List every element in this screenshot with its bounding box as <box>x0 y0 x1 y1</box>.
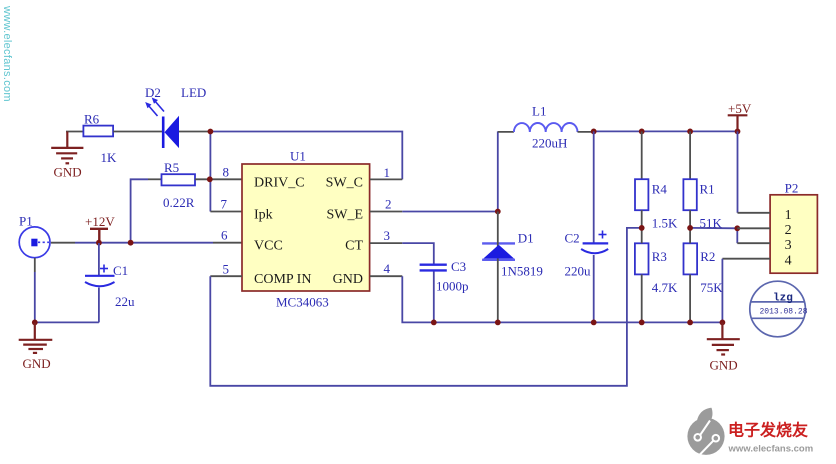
wire: R1/R2 mid to P2 <box>690 227 737 229</box>
svg-text:C3: C3 <box>451 259 466 274</box>
inductor L1 <box>498 123 594 132</box>
svg-text:1K: 1K <box>101 150 118 165</box>
node: SW_E junction <box>495 209 501 215</box>
stamp: lzg 2013.08.28 <box>750 281 808 337</box>
capacitor C1 <box>85 243 115 322</box>
watermark logo: elecfans bottom right <box>687 408 724 457</box>
svg-text:3: 3 <box>785 238 792 253</box>
diode D1 1N5819 <box>482 212 515 323</box>
svg-text:75K: 75K <box>700 280 723 295</box>
wire: +5V down to P2 pin1 <box>737 131 739 212</box>
svg-text:P1: P1 <box>19 214 33 229</box>
node: +12V junction <box>96 240 102 246</box>
pin 2 stub <box>370 211 402 213</box>
svg-text:GND: GND <box>333 272 363 287</box>
wire: C3 bottom to rail <box>433 272 435 323</box>
wire: node up to L1 <box>497 131 499 211</box>
node: P2 pin4 rail junction <box>720 320 726 326</box>
svg-text:COMP IN: COMP IN <box>254 272 311 287</box>
svg-text:SW_E: SW_E <box>326 208 363 223</box>
svg-text:MC34063: MC34063 <box>276 295 329 310</box>
svg-text:4: 4 <box>384 261 391 276</box>
svg-text:lzg: lzg <box>773 293 793 305</box>
svg-text:8: 8 <box>223 165 230 180</box>
wire: CT to C3 <box>402 243 434 264</box>
capacitor C3 <box>420 265 447 271</box>
svg-text:3: 3 <box>384 228 391 243</box>
svg-text:6: 6 <box>221 228 228 243</box>
P2 pin 2 stub <box>737 227 770 229</box>
svg-text:220u: 220u <box>565 264 592 279</box>
node: R5 loop junction <box>128 240 134 246</box>
node: R4/R3 junction <box>639 225 645 231</box>
pin 5 stub <box>210 275 242 277</box>
node: L1/C2 junction <box>591 129 597 135</box>
svg-text:R2: R2 <box>700 249 715 264</box>
svg-text:L1: L1 <box>532 104 546 119</box>
svg-text:22u: 22u <box>115 294 135 309</box>
connector P2 <box>770 195 817 273</box>
svg-text:220uH: 220uH <box>532 135 567 150</box>
svg-text:R6: R6 <box>84 112 100 127</box>
svg-text:+12V: +12V <box>85 214 115 229</box>
node: R1 top junction <box>687 129 693 135</box>
node: R4 top junction <box>639 129 645 135</box>
wire: LED to node <box>179 131 210 133</box>
pin 4 stub <box>370 275 402 277</box>
svg-text:DRIV_C: DRIV_C <box>254 175 305 190</box>
wire: top +5V rail <box>594 130 738 132</box>
wire: C1 bottom to P1 bottom <box>35 321 99 323</box>
ground (R6 left) <box>51 132 83 164</box>
wire: P1 bottom lead <box>34 258 36 272</box>
node: R1/R2 junction <box>687 225 693 231</box>
power +12V <box>90 229 108 243</box>
node: D1 rail junction <box>495 320 501 326</box>
resistor R5 <box>148 178 162 180</box>
svg-text:C1: C1 <box>113 263 128 278</box>
svg-text:1: 1 <box>785 208 792 223</box>
wire: R6 to LED <box>113 131 162 133</box>
wire: R5 to pin 8 <box>195 178 242 180</box>
svg-text:4.7K: 4.7K <box>652 280 678 295</box>
connector P1 <box>19 227 50 258</box>
capacitor C2 <box>581 131 608 322</box>
svg-text:1: 1 <box>384 165 391 180</box>
svg-text:1.5K: 1.5K <box>652 216 678 231</box>
svg-text:R5: R5 <box>164 160 179 175</box>
svg-text:4: 4 <box>785 254 792 269</box>
wire: P1 to +12V rail <box>51 242 75 244</box>
power +5V <box>728 115 748 131</box>
LED D2 <box>145 98 179 149</box>
svg-text:P2: P2 <box>785 180 799 195</box>
svg-text:CT: CT <box>345 239 363 254</box>
svg-text:www.elecfans.com: www.elecfans.com <box>728 444 814 455</box>
wire: GND stub to R6 <box>66 131 83 133</box>
node: +5V junction <box>735 129 741 135</box>
resistor R3 <box>635 243 649 274</box>
P2 pin 3 stub <box>737 242 770 244</box>
pin 1 stub <box>370 178 402 180</box>
svg-text:VCC: VCC <box>254 239 283 254</box>
wire: SW_E to D1/L1 node <box>402 211 498 213</box>
pin 3 stub <box>370 242 402 244</box>
svg-text:GND: GND <box>54 165 82 180</box>
svg-text:1N5819: 1N5819 <box>501 264 543 279</box>
svg-text:D2: D2 <box>145 85 161 100</box>
P2 pin 4 stub <box>722 258 770 260</box>
svg-text:2: 2 <box>785 223 792 238</box>
node: R3 rail junction <box>639 320 645 326</box>
op-amp U1 (MC34063 converter IC) <box>242 164 370 291</box>
svg-text:2013.08.28: 2013.08.28 <box>760 308 808 317</box>
wire: P2 pin2 to pin3 link <box>736 228 738 243</box>
node: P1 gnd junction <box>32 320 38 326</box>
svg-text:0.22R: 0.22R <box>163 195 195 210</box>
resistor R6 <box>83 126 113 137</box>
svg-text:R3: R3 <box>652 249 667 264</box>
svg-text:GND: GND <box>710 358 738 373</box>
svg-text:Ipk: Ipk <box>254 208 273 223</box>
svg-text:5: 5 <box>223 261 230 276</box>
wire: P2 pin4 down to ground rail <box>721 259 723 323</box>
svg-text:GND: GND <box>23 356 51 371</box>
node: C2 rail junction <box>591 320 597 326</box>
svg-text:LED: LED <box>181 85 206 100</box>
svg-text:SW_C: SW_C <box>326 175 363 190</box>
svg-text:D1: D1 <box>518 230 534 245</box>
ground (P1) <box>19 322 53 353</box>
resistor R1 <box>689 131 691 179</box>
wire: node to SW_C corner <box>210 132 402 180</box>
ground (right rail) <box>707 322 740 354</box>
svg-text:电子发烧友: 电子发烧友 <box>728 421 809 440</box>
resistor R2 <box>684 243 698 274</box>
pin 6 stub <box>213 242 242 244</box>
svg-text:R1: R1 <box>700 182 715 197</box>
wire: node down to pin7 <box>209 132 211 212</box>
node A: LED junction <box>208 129 214 135</box>
wire: feedback loop R4/R3 to COMP IN <box>210 228 641 386</box>
svg-text:www.elecfans.com: www.elecfans.com <box>1 5 13 102</box>
pin 7 stub <box>210 211 242 213</box>
svg-text:U1: U1 <box>290 149 306 164</box>
resistor R4 <box>641 131 643 179</box>
svg-text:7: 7 <box>221 197 228 212</box>
svg-text:+5V: +5V <box>728 101 752 116</box>
svg-text:C2: C2 <box>565 230 580 245</box>
svg-text:2: 2 <box>385 197 392 212</box>
svg-text:R4: R4 <box>652 182 668 197</box>
node: R2 rail junction <box>687 320 693 326</box>
wire: R5 left loop <box>131 179 148 242</box>
node: P2 pin2 junction <box>734 225 740 231</box>
P2 pin 1 stub <box>738 212 771 214</box>
node: C3 rail junction <box>431 320 437 326</box>
wire: U1 GND pin to rail <box>402 276 722 322</box>
node: pin8 junction <box>207 176 213 182</box>
svg-text:1000p: 1000p <box>436 279 469 294</box>
